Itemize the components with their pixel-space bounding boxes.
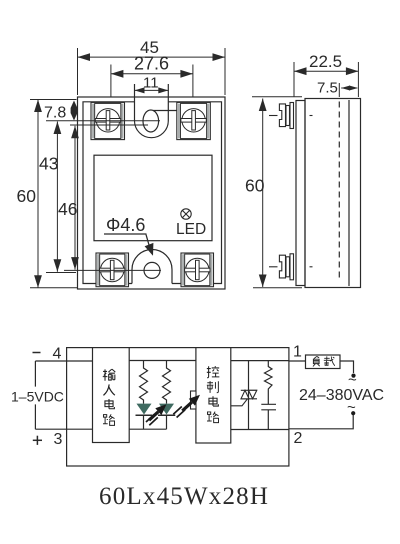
dim 43 (56, 122, 58, 272)
LED D2 lead (166, 415, 168, 429)
svg-text:60: 60 (245, 176, 265, 196)
SSR body inner outline (83, 102, 222, 284)
slot leader line (153, 110, 177, 112)
wire bottom internal left (129, 428, 166, 430)
emission arrows LED D1 (146, 404, 167, 425)
svg-text:3: 3 (54, 431, 63, 448)
leader line top screw center (46, 120, 160, 122)
plus sign (33, 436, 42, 445)
resistor R2 (163, 361, 171, 404)
dim 60 left (37, 100, 39, 288)
leader line bottom screw center (64, 269, 161, 271)
SSR outline box (67, 348, 289, 466)
wire load to AC top (340, 361, 354, 373)
svg-text:60: 60 (17, 186, 37, 206)
svg-text:60Lx45Wx28H: 60Lx45Wx28H (99, 483, 269, 510)
side dashed centerline (338, 102, 340, 281)
svg-text:1: 1 (293, 344, 302, 361)
side main body (305, 99, 361, 288)
triac symbol (231, 390, 257, 406)
wire control box to terminal 1 (231, 360, 289, 362)
leader line bottom short (46, 272, 76, 274)
load box text (313, 356, 335, 366)
top mounting slot (135, 84, 169, 138)
svg-text:7.8: 7.8 (44, 105, 66, 122)
wire input box to control box (129, 360, 196, 362)
dim 7.8 diamond arrow (71, 101, 78, 121)
LED D2 symbol (158, 404, 175, 416)
LED D1 (143, 415, 145, 429)
AC dot top (351, 374, 355, 378)
input circuit text (103, 369, 116, 425)
triac branch wire (248, 361, 250, 430)
phi leader arrow (145, 235, 154, 256)
svg-text:27.6: 27.6 (134, 54, 169, 74)
side inner line (348, 100, 350, 286)
source bracket (34, 361, 36, 429)
dim 46 (74, 126, 76, 270)
terminal screw top-right (177, 102, 211, 139)
control circuit box (196, 348, 231, 443)
dim 45 (78, 56, 226, 58)
svg-text:43: 43 (39, 154, 58, 174)
AC dot bottom (351, 411, 355, 415)
svg-text:2: 2 (294, 430, 303, 447)
dim 60 side (262, 99, 264, 288)
photodetector on control box (191, 391, 197, 409)
external wire terminal 1 to load (289, 360, 306, 362)
side top screw profile (269, 103, 313, 129)
label area inner rect (94, 155, 212, 241)
svg-text:4: 4 (53, 346, 62, 363)
svg-text:11: 11 (143, 75, 159, 92)
svg-text:Φ4.6: Φ4.6 (106, 215, 145, 235)
snubber capacitor (261, 404, 276, 429)
bottom arch hole circle (144, 262, 160, 278)
dim 11 (135, 89, 169, 91)
wire bottom internal right (231, 429, 289, 431)
svg-text:~: ~ (348, 372, 357, 389)
svg-text:22.5: 22.5 (309, 52, 342, 71)
bottom arch cutout (132, 250, 172, 284)
svg-text:1–5VDC: 1–5VDC (11, 389, 64, 405)
svg-text:LED: LED (176, 221, 206, 238)
terminal screw top-left (91, 102, 125, 139)
dim 27.6 (111, 73, 193, 75)
terminal screw bottom-left (96, 253, 129, 287)
wire AC bottom to terminal 2 (289, 415, 353, 429)
load box (306, 355, 341, 369)
control circuit text (207, 366, 220, 423)
resistor R1 (140, 361, 148, 404)
phi label underline (104, 233, 147, 235)
side front plate (296, 101, 305, 286)
input circuit box (93, 348, 130, 443)
snubber branch: resistor (265, 361, 273, 405)
svg-text:7.5: 7.5 (317, 80, 338, 97)
minus sign (33, 352, 41, 354)
top slot inner oval (143, 110, 159, 132)
svg-text:24–380VAC: 24–380VAC (299, 387, 384, 404)
leader line 2 (70, 124, 148, 126)
svg-text:46: 46 (58, 199, 77, 219)
terminal screw bottom-right (181, 253, 214, 287)
dim 22.5 (294, 70, 358, 72)
side bottom screw profile (269, 254, 313, 280)
SSR body outer rect (78, 97, 226, 289)
LED D1 symbol (136, 404, 153, 416)
LED indicator symbol (181, 209, 191, 219)
emission arrows LED D2 (173, 395, 200, 418)
wire plus to terminal 3 (35, 428, 92, 430)
dim 7.5 (341, 87, 357, 89)
wire minus to terminal 4 (35, 360, 92, 362)
